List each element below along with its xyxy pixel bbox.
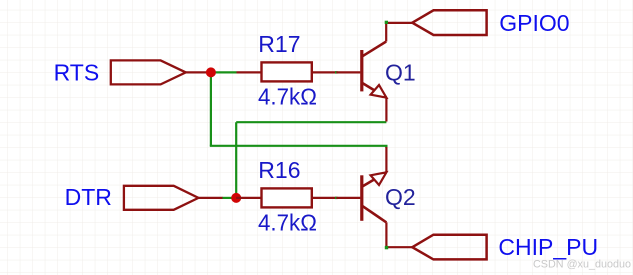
wire stub CHIP_PU corner — [385, 246, 388, 249]
svg-text:DTR: DTR — [65, 184, 112, 210]
wire cross horizontal to Q2 emitter — [210, 146, 387, 148]
port GPIO0 — [412, 10, 486, 35]
wire RTS junction to R17 — [211, 71, 237, 73]
svg-text:GPIO0: GPIO0 — [499, 10, 569, 36]
port RTS — [111, 60, 186, 84]
wire DTR pin to junction — [222, 197, 236, 199]
wire DTR junction up — [235, 122, 237, 198]
transistor Q1 — [336, 23, 412, 122]
wire stub GPIO0 corner — [385, 21, 388, 24]
wire cross horizontal to Q1 emitter — [236, 121, 386, 123]
wire DTR port pin — [198, 197, 222, 199]
junction dot DTR — [231, 193, 241, 203]
svg-text:4.7kΩ: 4.7kΩ — [258, 83, 317, 109]
svg-text:R16: R16 — [258, 157, 300, 183]
svg-text:CSDN @xu_duoduo: CSDN @xu_duoduo — [533, 259, 631, 271]
svg-text:Q2: Q2 — [385, 184, 416, 210]
svg-text:Q1: Q1 — [385, 60, 416, 86]
port DTR — [124, 186, 198, 210]
wire RTS port pin — [186, 71, 211, 73]
resistor R17 — [237, 62, 337, 81]
wire RTS junction down — [210, 72, 212, 145]
transistor Q2 — [336, 147, 412, 247]
svg-text:4.7kΩ: 4.7kΩ — [258, 209, 317, 235]
svg-text:CHIP_PU: CHIP_PU — [498, 234, 598, 260]
port CHIP_PU — [412, 235, 486, 260]
junction dot RTS — [206, 67, 216, 77]
resistor R16 — [236, 188, 336, 207]
wire stub R16 to Q2 base — [335, 197, 338, 199]
svg-text:R17: R17 — [258, 31, 300, 57]
wire stub R17 to Q1 base — [335, 71, 338, 73]
svg-text:RTS: RTS — [54, 60, 100, 86]
